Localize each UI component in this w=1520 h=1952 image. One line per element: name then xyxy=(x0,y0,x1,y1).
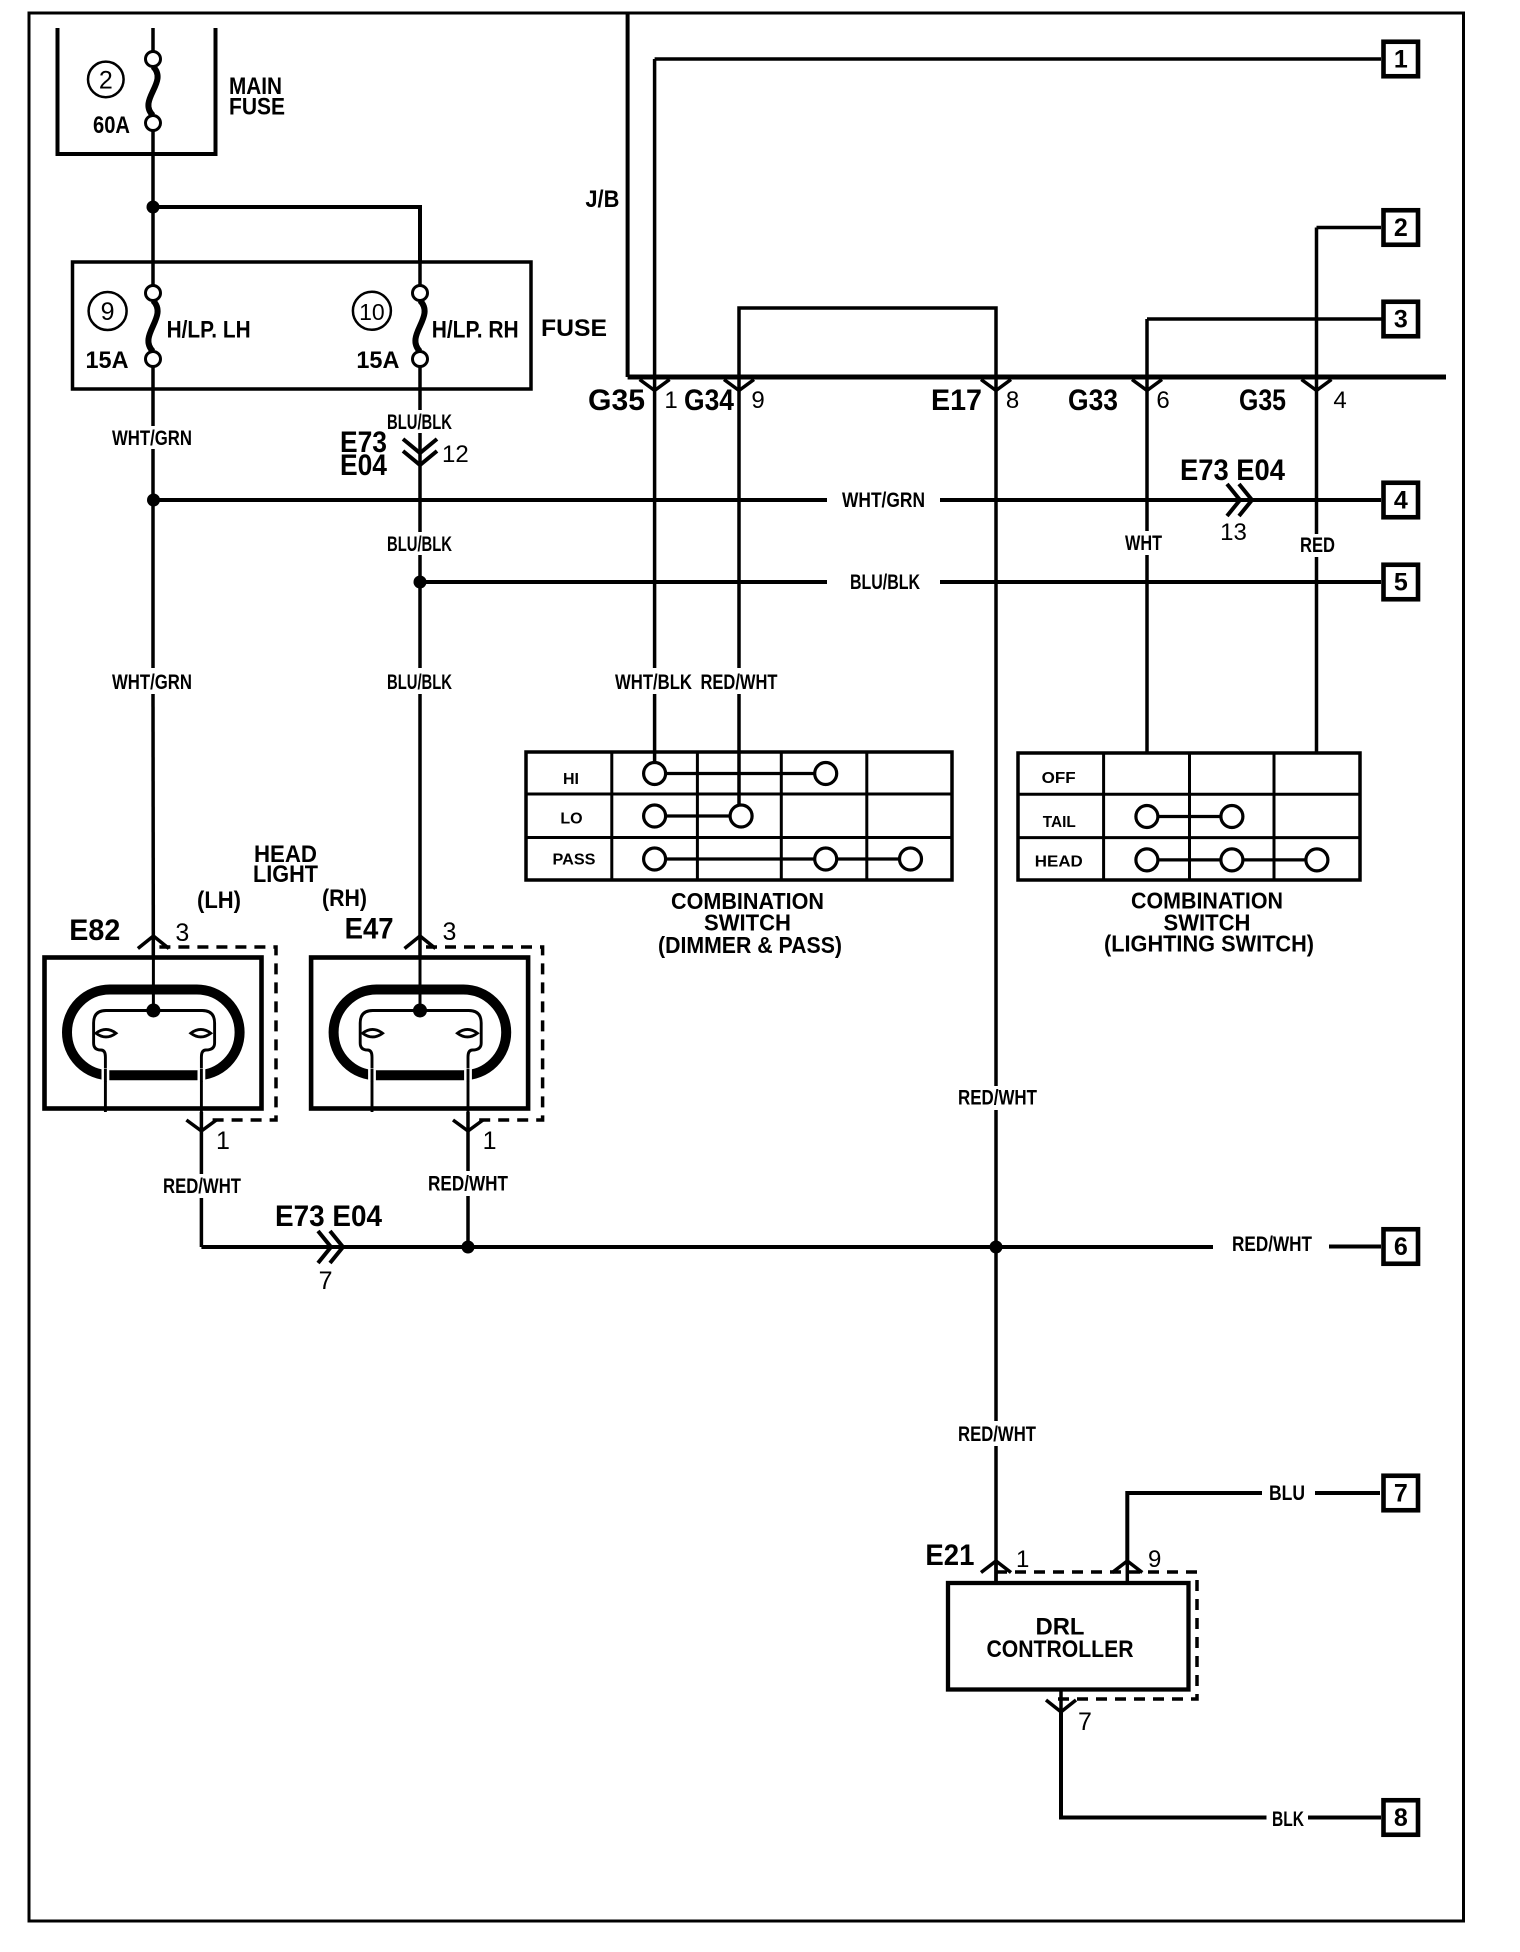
svg-text:2: 2 xyxy=(99,67,113,95)
svg-text:13: 13 xyxy=(1220,519,1247,546)
svg-text:4: 4 xyxy=(1333,387,1346,414)
svg-text:WHT/GRN: WHT/GRN xyxy=(112,427,192,450)
svg-text:FUSE: FUSE xyxy=(541,315,607,342)
svg-text:5: 5 xyxy=(1394,569,1408,597)
svg-text:(DIMMER & PASS): (DIMMER & PASS) xyxy=(658,932,842,958)
svg-text:WHT/GRN: WHT/GRN xyxy=(112,671,192,694)
svg-text:(LIGHTING SWITCH): (LIGHTING SWITCH) xyxy=(1104,931,1314,957)
svg-text:2: 2 xyxy=(1394,214,1408,242)
svg-text:9: 9 xyxy=(101,298,115,326)
svg-text:BLK: BLK xyxy=(1272,1808,1304,1831)
svg-text:6: 6 xyxy=(1156,387,1169,414)
svg-text:RED/WHT: RED/WHT xyxy=(1232,1233,1312,1256)
svg-text:E04: E04 xyxy=(340,449,387,482)
svg-text:BLU/BLK: BLU/BLK xyxy=(387,533,452,556)
svg-text:6: 6 xyxy=(1394,1233,1408,1261)
svg-text:E21: E21 xyxy=(925,1539,974,1572)
svg-text:G33: G33 xyxy=(1068,384,1118,417)
svg-text:1: 1 xyxy=(216,1127,230,1155)
svg-text:1: 1 xyxy=(1394,46,1408,74)
svg-text:OFF: OFF xyxy=(1042,770,1076,787)
svg-text:7: 7 xyxy=(1394,1480,1408,1508)
svg-text:RED: RED xyxy=(1300,534,1335,557)
svg-text:8: 8 xyxy=(1394,1804,1408,1832)
svg-text:CONTROLLER: CONTROLLER xyxy=(987,1636,1134,1663)
svg-text:9: 9 xyxy=(751,387,764,414)
svg-text:(LH): (LH) xyxy=(197,887,241,914)
svg-text:60A: 60A xyxy=(93,112,130,139)
svg-text:G35: G35 xyxy=(588,384,645,417)
svg-text:LIGHT: LIGHT xyxy=(253,861,318,888)
svg-text:E73 E04: E73 E04 xyxy=(275,1200,382,1233)
svg-text:E17: E17 xyxy=(931,384,982,417)
svg-text:WHT/GRN: WHT/GRN xyxy=(842,489,925,512)
svg-text:LO: LO xyxy=(560,811,582,828)
svg-text:E47: E47 xyxy=(345,913,394,946)
svg-text:G34: G34 xyxy=(684,384,734,417)
svg-text:RED/WHT: RED/WHT xyxy=(958,1423,1036,1446)
svg-text:1: 1 xyxy=(1016,1546,1029,1573)
svg-text:RED/WHT: RED/WHT xyxy=(163,1175,241,1198)
svg-text:7: 7 xyxy=(1078,1708,1092,1736)
svg-text:3: 3 xyxy=(443,918,457,946)
svg-text:4: 4 xyxy=(1394,487,1408,515)
svg-text:J/B: J/B xyxy=(585,186,619,213)
svg-text:TAIL: TAIL xyxy=(1043,814,1076,831)
svg-text:3: 3 xyxy=(1394,306,1408,334)
svg-text:7: 7 xyxy=(319,1267,333,1295)
svg-text:WHT/BLK: WHT/BLK xyxy=(615,671,692,694)
svg-text:BLU/BLK: BLU/BLK xyxy=(387,671,452,694)
svg-text:15A: 15A xyxy=(86,347,129,374)
svg-text:BLU/BLK: BLU/BLK xyxy=(850,571,920,594)
svg-text:FUSE: FUSE xyxy=(229,94,285,121)
svg-text:RED/WHT: RED/WHT xyxy=(958,1086,1037,1109)
svg-text:H/LP. RH: H/LP. RH xyxy=(432,317,519,344)
svg-text:RED/WHT: RED/WHT xyxy=(701,671,778,694)
svg-text:HI: HI xyxy=(563,771,579,788)
svg-text:(RH): (RH) xyxy=(322,885,367,912)
svg-text:BLU: BLU xyxy=(1269,1482,1305,1505)
svg-text:1: 1 xyxy=(664,387,677,414)
svg-text:BLU/BLK: BLU/BLK xyxy=(387,411,452,434)
svg-text:PASS: PASS xyxy=(553,852,596,869)
svg-text:1: 1 xyxy=(483,1127,497,1155)
svg-text:15A: 15A xyxy=(356,347,399,374)
svg-text:HEAD: HEAD xyxy=(1035,853,1083,870)
svg-text:10: 10 xyxy=(359,299,385,325)
svg-text:9: 9 xyxy=(1148,1546,1161,1573)
svg-text:12: 12 xyxy=(442,441,469,468)
svg-text:E73 E04: E73 E04 xyxy=(1180,454,1285,487)
svg-text:RED/WHT: RED/WHT xyxy=(428,1173,508,1196)
svg-text:8: 8 xyxy=(1006,387,1019,414)
svg-text:G35: G35 xyxy=(1239,384,1286,417)
svg-text:3: 3 xyxy=(175,919,189,947)
svg-text:H/LP. LH: H/LP. LH xyxy=(167,317,251,344)
svg-text:WHT: WHT xyxy=(1125,532,1162,555)
svg-text:E82: E82 xyxy=(69,914,120,947)
